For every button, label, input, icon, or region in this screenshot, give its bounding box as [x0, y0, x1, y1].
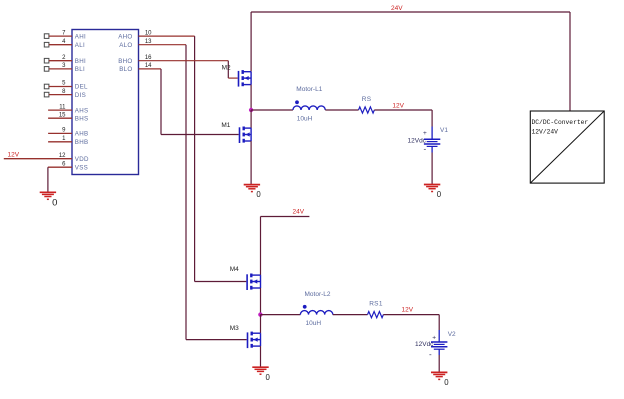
- svg-text:V2: V2: [448, 331, 456, 338]
- transistor M1 NMOS: [240, 127, 252, 144]
- ground M1 source: [244, 185, 260, 192]
- transistor M4 NMOS: [247, 274, 260, 291]
- svg-text:+: +: [432, 335, 436, 342]
- resistor RS1 zigzag: [368, 312, 384, 318]
- pin 10 AHO: [118, 30, 152, 40]
- svg-text:RS1: RS1: [369, 301, 383, 308]
- svg-text:BHI: BHI: [75, 58, 86, 65]
- svg-text:BLI: BLI: [75, 66, 85, 73]
- svg-text:DIS: DIS: [75, 92, 86, 99]
- pin 14 BLO: [119, 63, 152, 73]
- svg-text:12Vdc: 12Vdc: [408, 138, 427, 145]
- svg-text:BLO: BLO: [119, 66, 132, 73]
- pin 15 BHS: [48, 112, 88, 122]
- ground IC VSS: [40, 192, 56, 199]
- svg-text:M2: M2: [222, 64, 231, 71]
- svg-text:12V: 12V: [402, 307, 414, 314]
- wire node to Motor-L2: [260, 314, 300, 316]
- wire Motor-L2 to RS1: [333, 314, 368, 316]
- ground M3 source: [252, 367, 268, 374]
- svg-text:RS: RS: [362, 96, 372, 103]
- wire VSS down to ground: [47, 167, 49, 192]
- node junction M4/M3 motor-B: [258, 312, 262, 316]
- wire 24V lower down to M4 drain: [260, 217, 262, 276]
- wire BLO vertical to M1 gate: [160, 69, 162, 135]
- svg-text:16: 16: [145, 55, 152, 61]
- svg-text:12: 12: [59, 153, 66, 159]
- svg-text:Motor-L2: Motor-L2: [305, 291, 331, 298]
- svg-text:0: 0: [52, 198, 57, 209]
- wire down to V1 plus: [431, 110, 433, 127]
- svg-text:24V: 24V: [391, 5, 403, 12]
- svg-text:0: 0: [266, 373, 271, 382]
- svg-text:BHB: BHB: [75, 139, 89, 146]
- svg-text:+: +: [423, 130, 427, 137]
- pin 4 ALI: [44, 39, 85, 49]
- DC/DC converter box: [530, 111, 604, 183]
- pin 7 AHI: [44, 30, 86, 40]
- pin 13 ALO: [119, 39, 152, 49]
- svg-text:ALO: ALO: [119, 42, 132, 49]
- svg-text:10uH: 10uH: [297, 116, 313, 123]
- wire node to M3 drain: [260, 315, 262, 334]
- svg-text:12V/24V: 12V/24V: [532, 129, 559, 136]
- wire RS1 to V2: [383, 314, 439, 316]
- op-amp/driver IC U1 HIP4081 body: [72, 30, 139, 175]
- svg-text:10uH: 10uH: [306, 320, 322, 327]
- svg-text:AHO: AHO: [118, 33, 132, 40]
- svg-text:AHS: AHS: [75, 107, 89, 114]
- wire Motor-L1 to RS: [325, 109, 358, 111]
- wire M3 source to ground: [260, 346, 262, 367]
- svg-text:BHS: BHS: [75, 115, 89, 122]
- wire ALO pin13 horizontal: [139, 44, 187, 46]
- wire M3 gate horizontal: [186, 339, 247, 341]
- wire M1 gate horizontal: [161, 134, 239, 136]
- wire M2 gate horizontal: [228, 77, 237, 79]
- wire 24V lower stub: [261, 216, 310, 218]
- svg-text:13: 13: [145, 39, 152, 45]
- svg-text:12V: 12V: [8, 152, 20, 159]
- wire BHO vertical to M2 gate: [227, 61, 229, 78]
- inductor Motor-L2 coil: [300, 311, 332, 315]
- wire 24V rail down to DC/DC converter: [569, 12, 571, 111]
- transistor M2 NMOS: [239, 70, 252, 87]
- pin 3 BLI: [44, 63, 85, 73]
- svg-text:AHB: AHB: [75, 131, 89, 138]
- inductor Motor-L2 polarity dot: [303, 305, 307, 309]
- pin 8 DIS: [44, 89, 86, 99]
- svg-text:BHO: BHO: [118, 58, 132, 65]
- svg-text:VSS: VSS: [75, 164, 88, 171]
- wire BLO pin14 horizontal: [139, 68, 162, 70]
- svg-text:12V: 12V: [392, 102, 404, 109]
- wire 24V top rail: [251, 11, 570, 13]
- svg-text:24V: 24V: [293, 209, 305, 216]
- wire V1 to ground: [431, 153, 433, 185]
- svg-text:M4: M4: [230, 266, 239, 273]
- wire node to M1 drain: [250, 110, 252, 128]
- wire AHO pin10 horizontal: [139, 35, 195, 37]
- svg-text:14: 14: [145, 63, 152, 69]
- transistor M3 NMOS: [248, 332, 261, 349]
- inductor Motor-L1 coil: [293, 106, 325, 110]
- svg-text:DEL: DEL: [75, 84, 88, 91]
- pin 9 AHB: [48, 128, 88, 138]
- wire M1 source to ground: [250, 141, 252, 184]
- pin 16 BHO: [118, 55, 152, 65]
- wire V2 to ground: [438, 355, 440, 372]
- svg-text:0: 0: [444, 378, 449, 387]
- node junction M2/M1 motor-A: [249, 108, 253, 112]
- DC/DC converter diagonal: [530, 111, 604, 183]
- wire node to Motor-L1: [251, 109, 293, 111]
- wire BHO pin16 horizontal: [139, 60, 229, 62]
- wire M2 source to node: [250, 85, 252, 110]
- wire M4 gate horizontal: [195, 281, 247, 283]
- wire down to V2 plus: [438, 315, 440, 330]
- pin 5 DEL: [44, 81, 88, 91]
- svg-text:M3: M3: [230, 325, 239, 332]
- source V1 plus lead: [431, 127, 433, 140]
- wire ALO vertical to M3 gate: [185, 45, 187, 340]
- svg-text:VDD: VDD: [75, 156, 89, 163]
- pin 6 VSS wire: [48, 161, 88, 171]
- svg-text:15: 15: [59, 112, 66, 118]
- svg-text:Motor-L1: Motor-L1: [296, 86, 322, 93]
- source V1 battery plates: [424, 139, 440, 146]
- wire AHO vertical to M4 gate: [194, 36, 196, 281]
- source V1 minus lead: [431, 146, 433, 152]
- wire M4 source to node: [260, 288, 262, 315]
- svg-text:DC/DC-Converter: DC/DC-Converter: [532, 119, 589, 126]
- svg-text:-: -: [424, 145, 427, 154]
- svg-text:V1: V1: [440, 127, 448, 134]
- pin 2 BHI: [44, 55, 86, 65]
- svg-text:AHI: AHI: [75, 33, 86, 40]
- resistor RS zigzag: [359, 107, 375, 113]
- pin 11 AHS: [48, 104, 88, 114]
- svg-text:10: 10: [145, 30, 152, 36]
- source V2 battery plates: [431, 342, 447, 349]
- ground V1: [424, 185, 440, 192]
- svg-text:-: -: [429, 350, 432, 359]
- source V2 plus lead: [438, 330, 440, 342]
- pin 1 BHB: [48, 136, 88, 146]
- wire 12V to VDD pin 12: [4, 153, 89, 163]
- inductor Motor-L1 polarity dot: [295, 100, 299, 104]
- svg-text:M1: M1: [221, 122, 230, 129]
- svg-text:0: 0: [437, 190, 442, 199]
- svg-text:ALI: ALI: [75, 42, 85, 49]
- wire 24V rail down to M2 drain: [250, 12, 252, 72]
- svg-text:0: 0: [256, 190, 261, 199]
- wire RS to V1: [374, 109, 432, 111]
- source V2 minus lead: [438, 349, 440, 355]
- ground V2: [431, 372, 447, 379]
- svg-text:11: 11: [59, 104, 66, 110]
